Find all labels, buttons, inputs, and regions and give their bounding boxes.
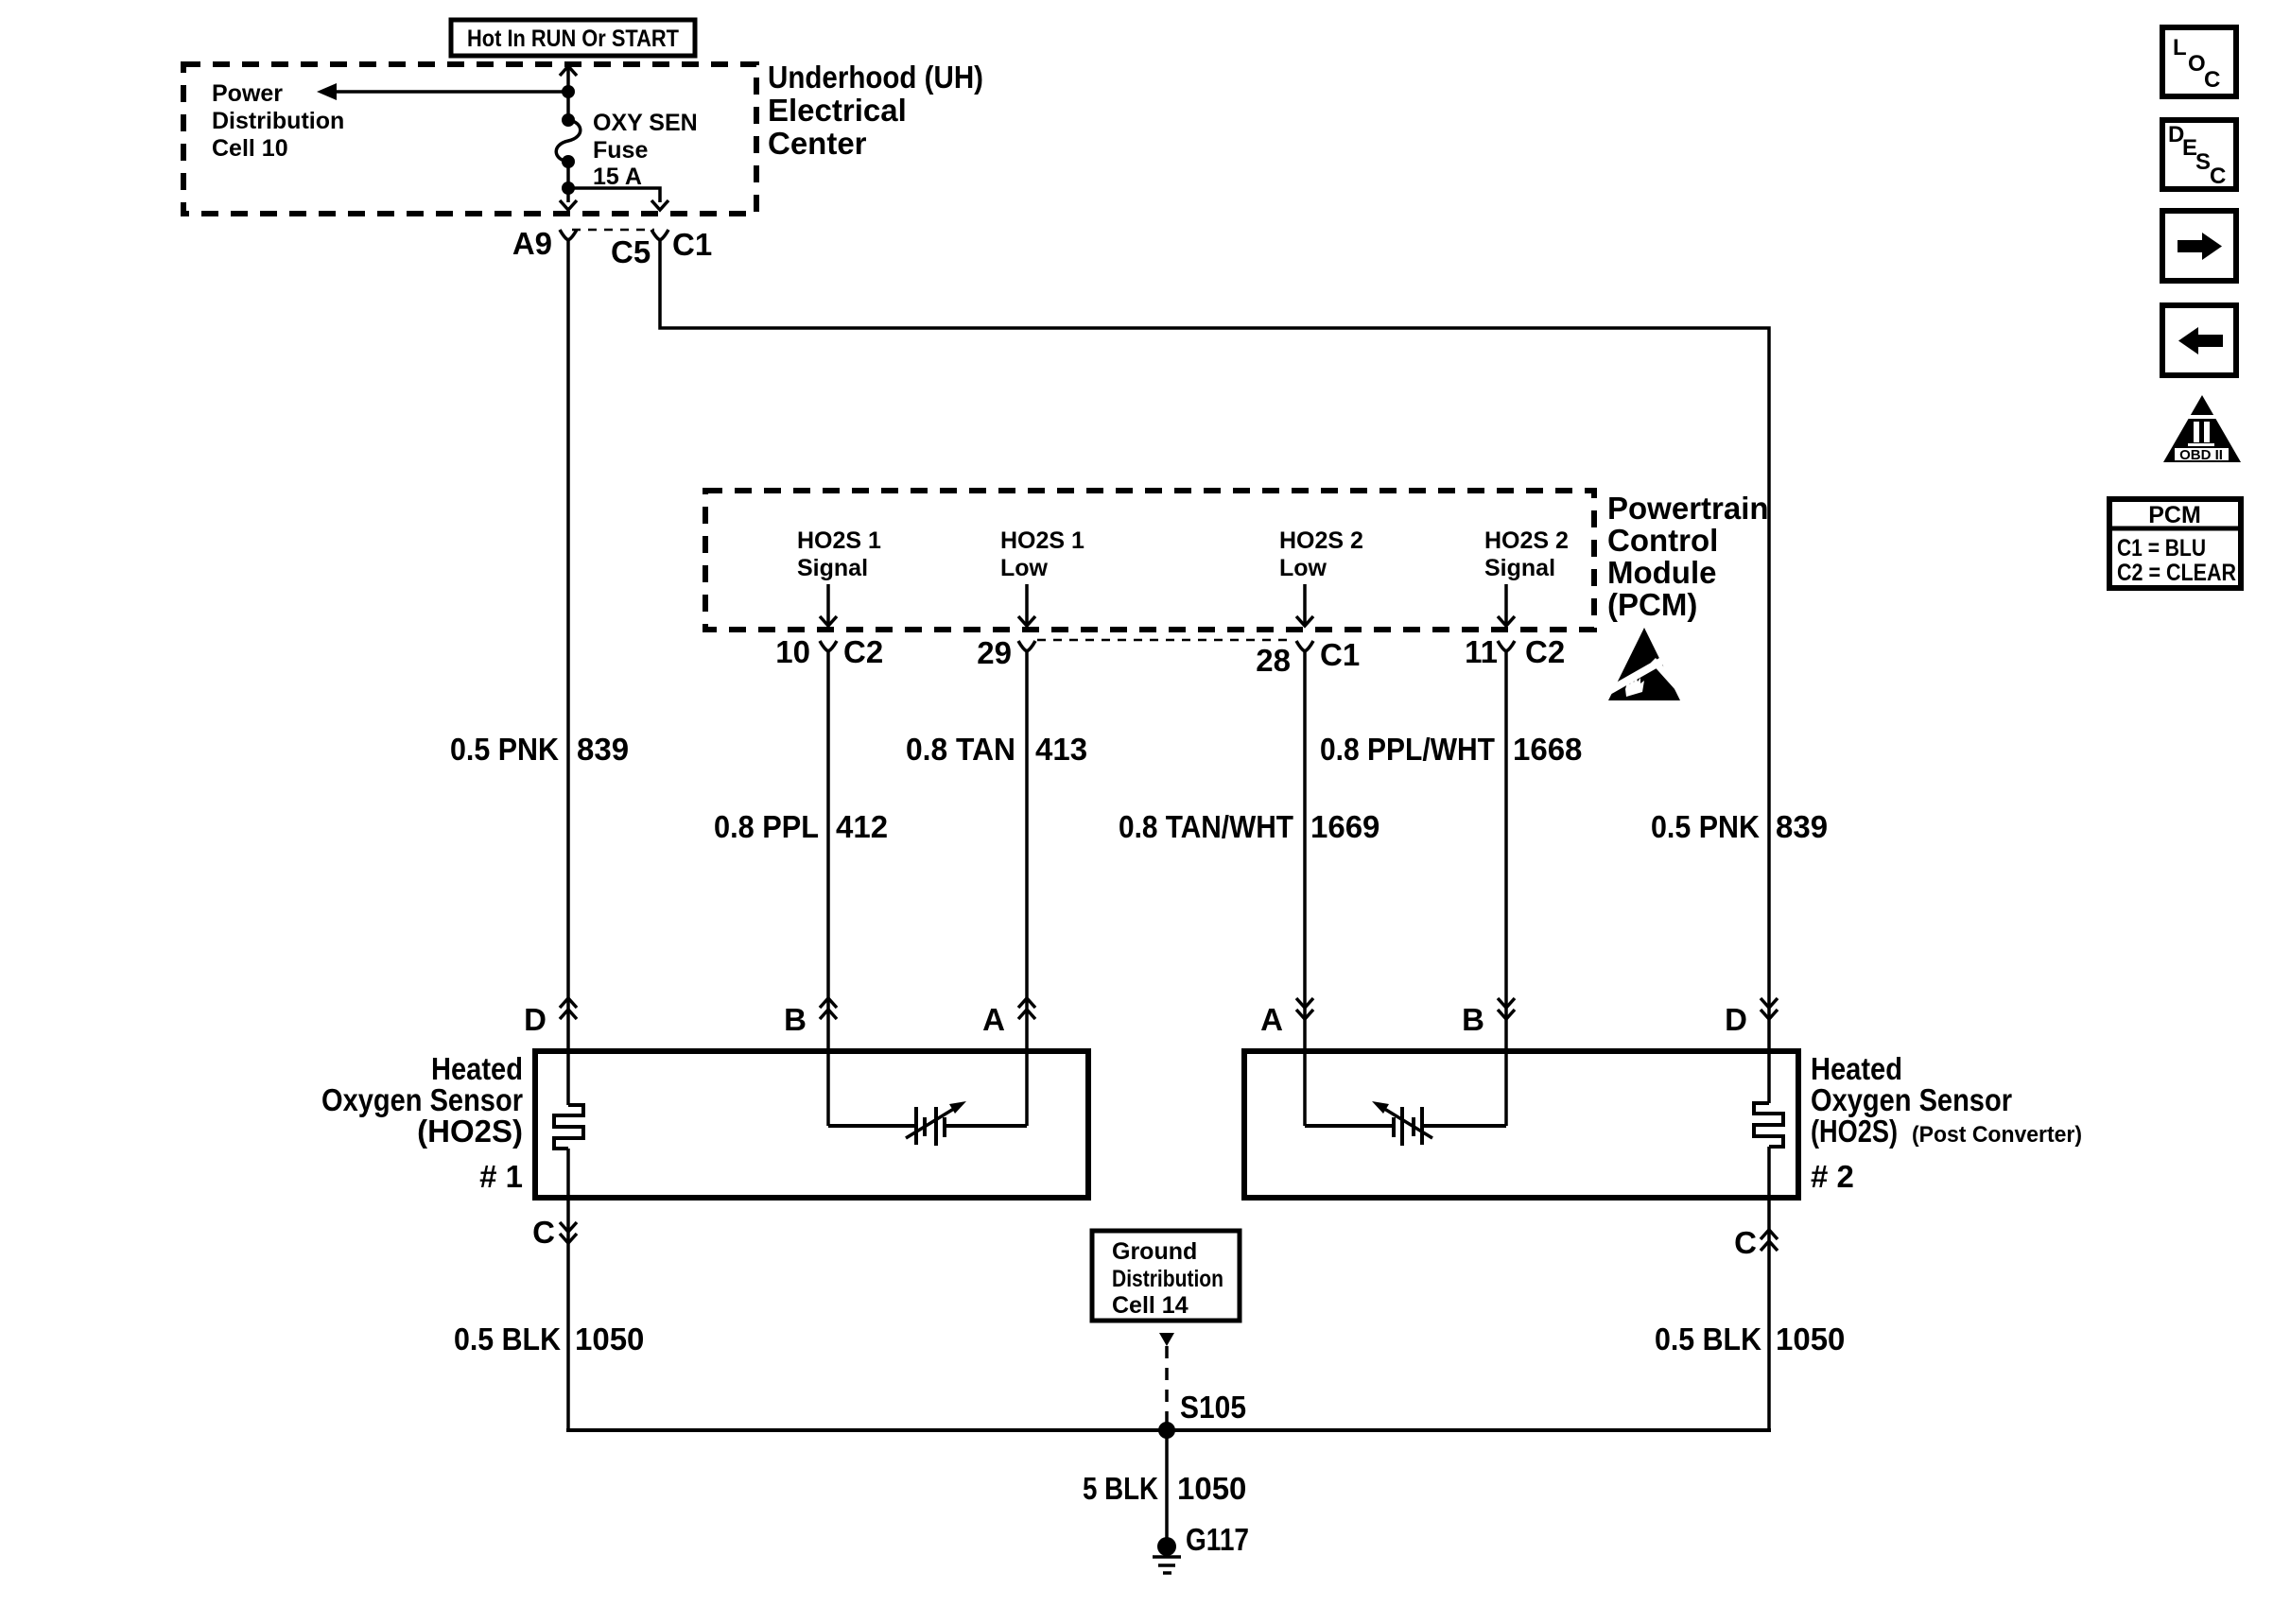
label box Hot In RUN Or START bbox=[451, 20, 695, 56]
svg-text:C5: C5 bbox=[611, 234, 651, 269]
svg-text:OBD II: OBD II bbox=[2179, 447, 2223, 463]
svg-text:839: 839 bbox=[1776, 809, 1828, 844]
label 0.5 PNK 839 right bbox=[1651, 809, 1828, 844]
svg-text:L: L bbox=[2173, 35, 2187, 60]
wire 0.8 PPL/WHT 1668 (pin 11 to sensor 2 pin B) bbox=[1504, 651, 1508, 1126]
svg-text:1050: 1050 bbox=[575, 1322, 644, 1356]
connector boundary dashed line A9-C1 bbox=[572, 229, 654, 232]
svg-text:(Post Converter): (Post Converter) bbox=[1912, 1122, 2082, 1148]
label 0.8 PPL/WHT 1668 bbox=[1320, 732, 1582, 767]
wire fuse feed vertical with up arrow bbox=[560, 66, 577, 118]
pin C1 connector bbox=[651, 227, 712, 262]
svg-text:Electrical: Electrical bbox=[768, 93, 907, 128]
ESD warning symbol bbox=[1598, 628, 1690, 700]
svg-text:D: D bbox=[1725, 1002, 1747, 1037]
pin A connector sensor 1 bbox=[982, 998, 1035, 1037]
wire sensor 2 heater to ground bus bbox=[1767, 1147, 1771, 1431]
pin 28 C1 connector bbox=[1256, 637, 1360, 678]
label 0.8 PPL 412 bbox=[714, 809, 888, 844]
wire branch to C1 bbox=[568, 188, 660, 202]
label Underhood (UH) Electrical Center bbox=[768, 60, 983, 161]
sensing element sensor 1 (variable with arrow) bbox=[828, 1101, 1027, 1146]
icon DESC bbox=[2162, 120, 2236, 189]
svg-text:# 1: # 1 bbox=[479, 1159, 523, 1194]
dashed box Powertrain Control Module (PCM) bbox=[705, 491, 1594, 630]
arrow into UH edge at A9 bbox=[560, 200, 577, 210]
label HO2S 1 Low bbox=[1000, 527, 1084, 581]
svg-text:0.8 TAN/WHT: 0.8 TAN/WHT bbox=[1119, 809, 1293, 844]
svg-text:412: 412 bbox=[836, 809, 888, 844]
label HO2S 2 Low bbox=[1279, 527, 1363, 581]
connector boundary dashed line C2-C1 bbox=[1037, 639, 1292, 642]
svg-text:0.5 BLK: 0.5 BLK bbox=[1655, 1322, 1761, 1356]
svg-text:Heated: Heated bbox=[431, 1051, 523, 1086]
icon OBD II triangle bbox=[2163, 395, 2241, 463]
svg-text:Ground: Ground bbox=[1112, 1238, 1197, 1265]
svg-text:C: C bbox=[1734, 1225, 1757, 1260]
ground G117 bbox=[1153, 1537, 1181, 1573]
arrow from Ground Distribution bbox=[1159, 1333, 1174, 1346]
pin C connector sensor 1 (flow down chevrons) bbox=[532, 1215, 577, 1250]
svg-text:0.8 PPL: 0.8 PPL bbox=[714, 809, 819, 844]
wire HO2S 1 Low arrow into PCM edge bbox=[1018, 584, 1035, 626]
svg-text:OXY SEN: OXY SEN bbox=[593, 110, 698, 136]
wire HO2S 1 Signal arrow into PCM edge bbox=[820, 584, 837, 626]
svg-text:B: B bbox=[784, 1002, 807, 1037]
svg-text:C1 = BLU: C1 = BLU bbox=[2117, 535, 2206, 561]
label G117 bbox=[1186, 1522, 1249, 1557]
svg-text:Underhood (UH): Underhood (UH) bbox=[768, 60, 983, 95]
wire fuse output bbox=[566, 162, 570, 202]
svg-text:1668: 1668 bbox=[1513, 732, 1582, 767]
svg-text:Hot In RUN Or START: Hot In RUN Or START bbox=[467, 26, 679, 52]
svg-text:Signal: Signal bbox=[797, 555, 868, 581]
svg-text:C2: C2 bbox=[1525, 634, 1565, 669]
svg-text:A9: A9 bbox=[512, 226, 552, 261]
pin D connector sensor 1 (flow up chevrons) bbox=[524, 998, 577, 1037]
pin B connector sensor 1 bbox=[784, 998, 837, 1037]
svg-text:C1: C1 bbox=[1320, 637, 1360, 672]
dashed wire to splice S105 bbox=[1165, 1346, 1169, 1425]
label 0.5 BLK 1050 left bbox=[454, 1322, 644, 1356]
svg-text:HO2S 1: HO2S 1 bbox=[1000, 527, 1084, 554]
node junction dot at power branch bbox=[562, 85, 575, 98]
svg-text:28: 28 bbox=[1256, 643, 1291, 678]
wire ground bus bbox=[566, 1428, 1771, 1432]
icon forward arrow bbox=[2162, 211, 2236, 281]
label 0.8 TAN/WHT 1669 bbox=[1119, 809, 1379, 844]
svg-text:Low: Low bbox=[1000, 555, 1049, 581]
label Heated Oxygen Sensor (HO2S) (Post Converter) # 2 bbox=[1811, 1051, 2082, 1194]
svg-text:Cell 10: Cell 10 bbox=[212, 135, 288, 162]
svg-text:0.8 TAN: 0.8 TAN bbox=[906, 732, 1015, 767]
label S105 bbox=[1180, 1390, 1246, 1425]
label 0.5 BLK 1050 right bbox=[1655, 1322, 1845, 1356]
wire sensor 1 heater to ground bus bbox=[566, 1149, 570, 1431]
icon LOC bbox=[2162, 27, 2236, 96]
node junction dot at fuse output branch bbox=[562, 181, 575, 195]
wire 0.8 PPL 412 (pin 10 to sensor 1 pin B) bbox=[826, 651, 830, 1126]
svg-text:A: A bbox=[982, 1002, 1005, 1037]
icon back arrow bbox=[2162, 305, 2236, 375]
pin D connector sensor 2 bbox=[1725, 998, 1778, 1037]
svg-text:Signal: Signal bbox=[1484, 555, 1555, 581]
svg-text:5 BLK: 5 BLK bbox=[1083, 1471, 1158, 1506]
svg-text:C2 = CLEAR: C2 = CLEAR bbox=[2117, 560, 2236, 586]
svg-text:0.5 PNK: 0.5 PNK bbox=[450, 732, 559, 767]
svg-text:HO2S 2: HO2S 2 bbox=[1279, 527, 1363, 554]
svg-text:Center: Center bbox=[768, 126, 867, 161]
pin C connector sensor 2 (flow up chevrons) bbox=[1734, 1225, 1778, 1260]
svg-text:11: 11 bbox=[1465, 634, 1498, 669]
wire 0.8 TAN/WHT 1669 (pin 28 to sensor 2 pin A) bbox=[1303, 651, 1307, 1126]
svg-text:A: A bbox=[1260, 1002, 1283, 1037]
svg-text:S105: S105 bbox=[1180, 1390, 1246, 1425]
node splice S105 bbox=[1158, 1422, 1175, 1439]
heater element sensor 2 bbox=[1754, 1103, 1783, 1147]
svg-text:413: 413 bbox=[1035, 732, 1087, 767]
label HO2S 1 Signal bbox=[797, 527, 881, 581]
svg-text:Heated: Heated bbox=[1811, 1051, 1902, 1086]
svg-text:10: 10 bbox=[775, 634, 810, 669]
pin C5 label bbox=[611, 234, 651, 269]
svg-text:Module: Module bbox=[1607, 555, 1716, 590]
svg-text:Oxygen Sensor: Oxygen Sensor bbox=[1811, 1082, 2012, 1117]
svg-text:D: D bbox=[524, 1002, 547, 1037]
svg-text:(HO2S): (HO2S) bbox=[417, 1114, 523, 1149]
svg-text:(PCM): (PCM) bbox=[1607, 587, 1697, 622]
pin 10 C2 connector bbox=[775, 634, 883, 669]
pin B connector sensor 2 bbox=[1462, 998, 1515, 1037]
svg-text:Fuse: Fuse bbox=[593, 137, 648, 164]
svg-text:Control: Control bbox=[1607, 523, 1718, 558]
label 0.5 PNK 839 left bbox=[450, 732, 629, 767]
label 0.8 TAN 413 bbox=[906, 732, 1087, 767]
sensing element sensor 2 (variable with arrow) bbox=[1305, 1101, 1506, 1146]
wire to Power Distribution with arrow bbox=[317, 83, 568, 100]
svg-text:# 2: # 2 bbox=[1811, 1159, 1854, 1194]
svg-text:B: B bbox=[1462, 1002, 1484, 1037]
wire HO2S 2 Low arrow into PCM edge bbox=[1296, 584, 1313, 626]
svg-text:Oxygen Sensor: Oxygen Sensor bbox=[321, 1082, 523, 1117]
svg-text:1050: 1050 bbox=[1776, 1322, 1845, 1356]
svg-text:0.5 PNK: 0.5 PNK bbox=[1651, 809, 1760, 844]
svg-text:HO2S 1: HO2S 1 bbox=[797, 527, 881, 554]
fuse OXY SEN 15 A bbox=[556, 113, 581, 168]
svg-text:Powertrain: Powertrain bbox=[1607, 491, 1769, 526]
svg-text:839: 839 bbox=[577, 732, 629, 767]
svg-text:Distribution: Distribution bbox=[1112, 1266, 1223, 1292]
dashed box Underhood Electrical Center bbox=[183, 64, 756, 214]
heater element sensor 1 bbox=[554, 1105, 583, 1149]
box Heated Oxygen Sensor #2 bbox=[1244, 1051, 1798, 1198]
svg-text:(HO2S): (HO2S) bbox=[1811, 1114, 1898, 1149]
box Heated Oxygen Sensor #1 bbox=[535, 1051, 1088, 1198]
svg-text:C1: C1 bbox=[672, 227, 712, 262]
svg-text:1669: 1669 bbox=[1310, 809, 1379, 844]
label Heated Oxygen Sensor (HO2S) # 1 bbox=[321, 1051, 523, 1194]
wire 0.8 TAN 413 (pin 29 to sensor 1 pin A) bbox=[1025, 651, 1029, 1126]
label Power Distribution Cell 10 bbox=[212, 80, 344, 162]
label OXY SEN Fuse 15 A bbox=[593, 110, 698, 190]
pin 29 connector bbox=[977, 635, 1035, 670]
svg-text:Distribution: Distribution bbox=[212, 108, 344, 134]
svg-text:PCM: PCM bbox=[2148, 502, 2201, 528]
svg-text:C: C bbox=[2204, 67, 2220, 93]
svg-text:1050: 1050 bbox=[1177, 1471, 1246, 1506]
svg-text:Power: Power bbox=[212, 80, 283, 107]
svg-text:0.8 PPL/WHT: 0.8 PPL/WHT bbox=[1320, 732, 1495, 767]
svg-text:29: 29 bbox=[977, 635, 1012, 670]
svg-text:0.5 BLK: 0.5 BLK bbox=[454, 1322, 561, 1356]
svg-text:15 A: 15 A bbox=[593, 164, 642, 190]
label Powertrain Control Module (PCM) bbox=[1607, 491, 1769, 622]
label 5 BLK 1050 bbox=[1083, 1471, 1246, 1506]
svg-text:C: C bbox=[532, 1215, 555, 1250]
label box Ground Distribution Cell 14 bbox=[1092, 1231, 1240, 1321]
svg-text:HO2S 2: HO2S 2 bbox=[1484, 527, 1569, 554]
wire 0.5 PNK 839 right (C1 to HO2S 2 pin D) bbox=[660, 240, 1769, 1103]
svg-text:O: O bbox=[2188, 51, 2206, 77]
svg-text:C: C bbox=[2210, 164, 2226, 189]
wire 0.5 PNK 839 left (A9 to HO2S 1 pin D) bbox=[566, 240, 570, 1105]
svg-text:Low: Low bbox=[1279, 555, 1327, 581]
wire 5 BLK 1050 to ground bbox=[1165, 1430, 1169, 1546]
pin 11 C2 connector bbox=[1465, 634, 1565, 669]
wire HO2S 2 Signal arrow into PCM edge bbox=[1498, 584, 1515, 626]
svg-text:Cell 14: Cell 14 bbox=[1112, 1292, 1189, 1319]
pin A9 connector bbox=[512, 226, 577, 261]
svg-text:S: S bbox=[2195, 149, 2211, 175]
svg-text:G117: G117 bbox=[1186, 1522, 1249, 1557]
label HO2S 2 Signal bbox=[1484, 527, 1569, 581]
pin A connector sensor 2 (flow down chevrons) bbox=[1260, 998, 1313, 1037]
svg-text:C2: C2 bbox=[843, 634, 883, 669]
table PCM connector legend bbox=[2109, 499, 2241, 588]
arrow into UH edge at C1 bbox=[651, 200, 668, 210]
